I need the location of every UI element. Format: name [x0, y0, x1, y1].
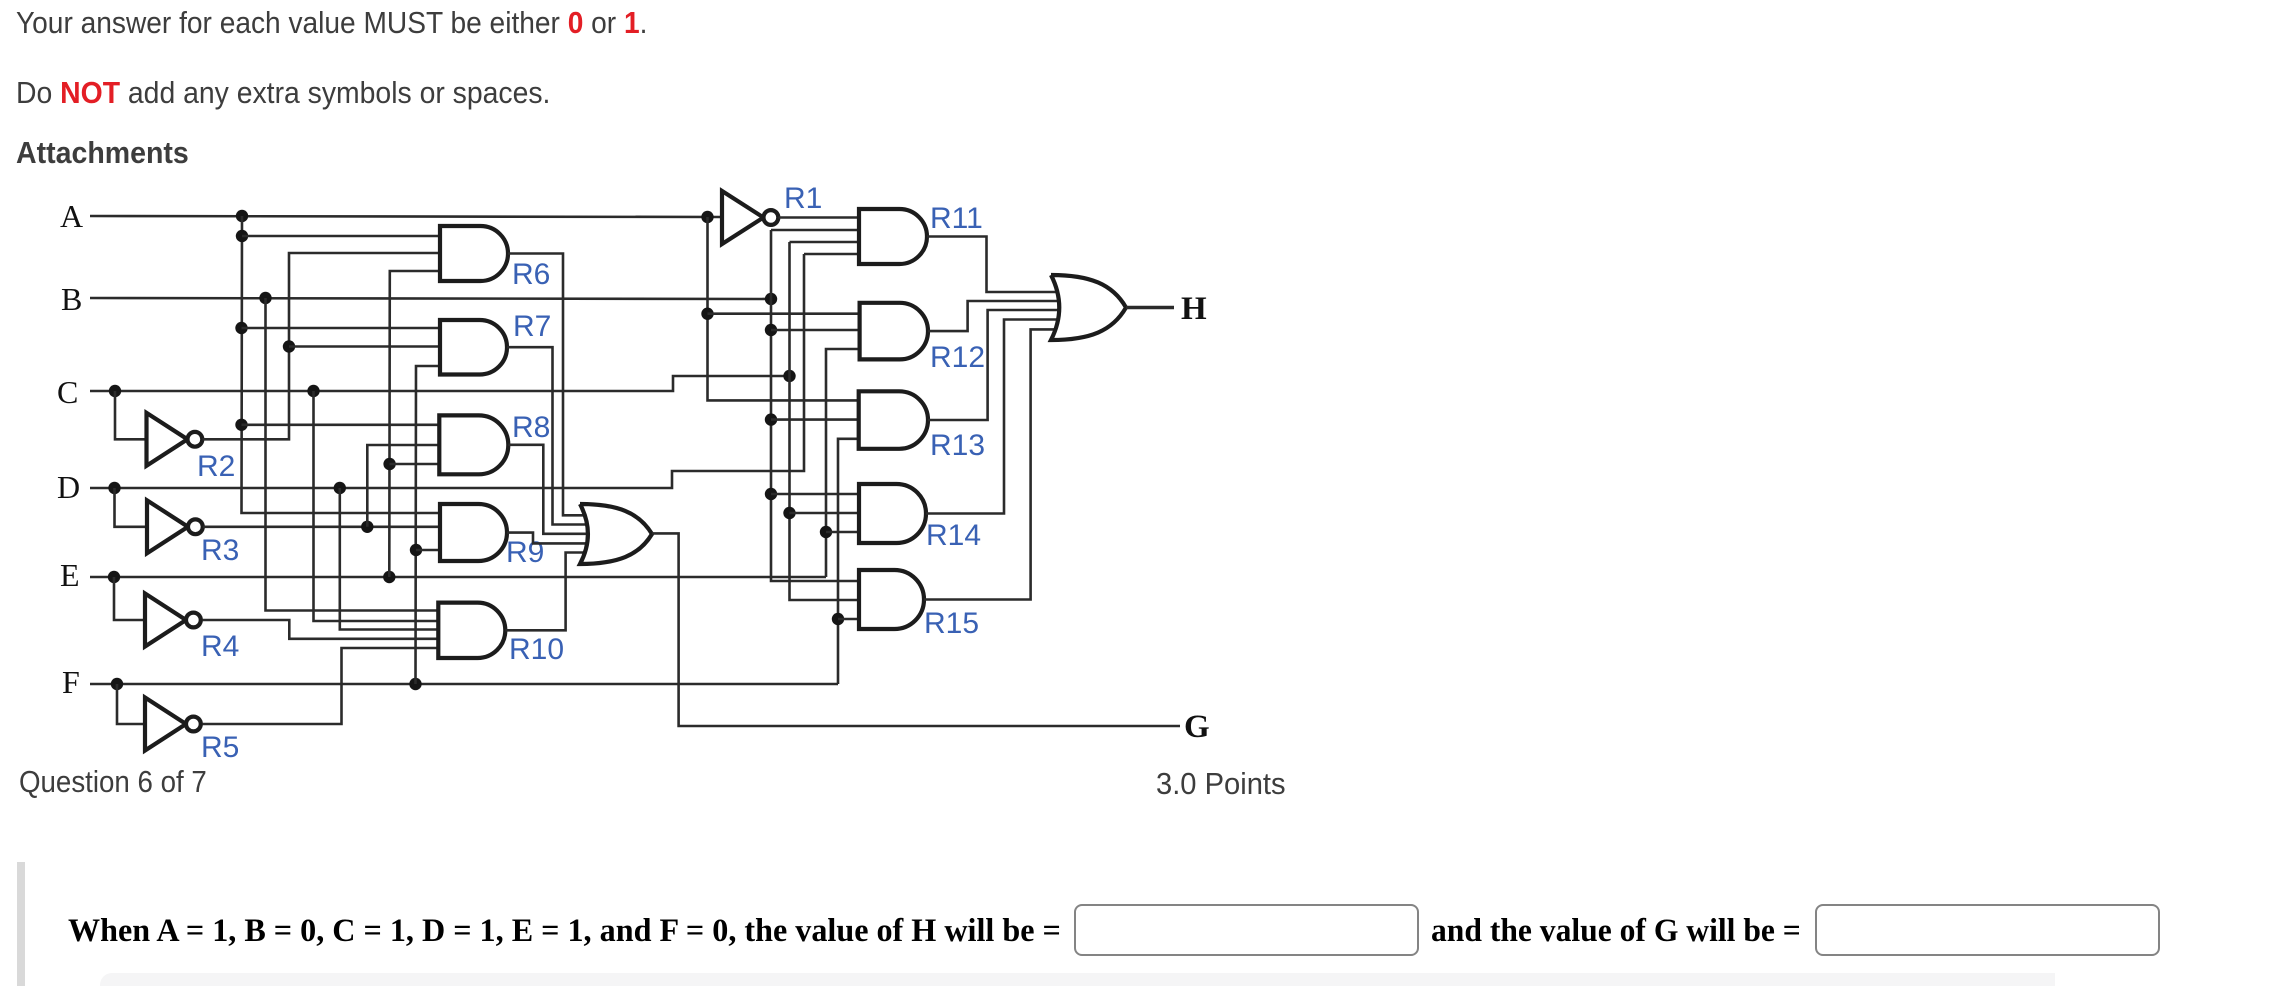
wire OR2 output to H [1126, 306, 1174, 309]
wire C drop to R10 in2 [314, 391, 439, 621]
and-gate R9 [440, 504, 507, 561]
svg-text:D: D [57, 469, 80, 505]
wire R14 output to OR2 [926, 320, 1072, 514]
svg-text:R5: R5 [201, 731, 239, 764]
wire E input line [90, 576, 826, 579]
junction A to column [236, 210, 248, 222]
quiz prompt text part 2 [1431, 913, 1801, 950]
junction R3-out riser [361, 521, 373, 533]
wire A input line [90, 216, 722, 217]
wire F to R9 in3 [416, 549, 440, 552]
junction E to R14 [820, 526, 832, 538]
bottom quiz block accent bar [17, 862, 25, 986]
junction E to R8 [383, 458, 395, 470]
wire R3 output to R9 in2 [203, 525, 440, 528]
junction F up-branch [409, 678, 421, 690]
svg-text:R9: R9 [506, 536, 544, 569]
wire C bus vertical [790, 242, 860, 600]
wire R3-out riser to R8 in2 [367, 445, 439, 527]
junction A to R7 [235, 322, 247, 334]
wire A to R8 in1 [242, 423, 440, 426]
wire R12 output to OR2 [928, 301, 1072, 331]
wire R2-out to R7 in2 [289, 345, 440, 348]
wire B bus vertical [771, 230, 859, 581]
junction C to R14 [783, 507, 795, 519]
wire R8 output to OR1 [508, 445, 606, 534]
svg-text:R7: R7 [513, 310, 551, 343]
and-gate R10 [438, 603, 505, 658]
svg-text:B: B [61, 281, 82, 317]
svg-text:R11: R11 [930, 202, 983, 235]
junction D to R10 drop [334, 482, 346, 494]
junction F to R15 [832, 613, 844, 625]
bottom footer band [100, 973, 2055, 986]
svg-text:R4: R4 [201, 630, 239, 663]
svg-text:R10: R10 [509, 633, 564, 666]
svg-text:F: F [62, 664, 80, 700]
wire B to R12 in2 [771, 329, 860, 332]
wire E to R8 in3 [390, 463, 440, 466]
junction E to R4 [108, 571, 120, 583]
wire R1 output to R11 [778, 216, 859, 219]
inverter R2 [147, 413, 188, 466]
junction B to R14 [765, 488, 777, 500]
and-gate R14 [859, 484, 926, 543]
junction B to R12 [765, 324, 777, 336]
and-gate R13 [859, 391, 928, 449]
junction C bus [783, 370, 795, 382]
and-gate R7 [440, 320, 507, 375]
junction F to R5 [111, 678, 123, 690]
top instruction line 2 [16, 75, 550, 111]
junction R2-out to R7 [283, 340, 295, 352]
wire B to R14 in1 [771, 493, 859, 496]
svg-text:R3: R3 [201, 534, 239, 567]
wire C to R14 in2 [790, 512, 860, 515]
wire D to R3 input [115, 488, 148, 527]
wire C to R2 input [115, 391, 147, 439]
junction F to R9 [410, 544, 422, 556]
wire R9 output to OR1 [507, 533, 606, 544]
wire F to R15 in3 [838, 618, 859, 621]
junction E up-branch [383, 571, 395, 583]
or-gate OR2 (H) [1051, 275, 1126, 340]
wire E riser to R12 in3 [826, 349, 860, 577]
svg-text:C: C [57, 374, 78, 410]
top instruction line 1 [16, 5, 647, 41]
junction A to R12/R13 column [701, 211, 713, 223]
wire E up-branch to R6 in3 [389, 271, 440, 577]
svg-text:R6: R6 [512, 258, 550, 291]
wire B to R11 in2 [771, 229, 859, 232]
and-gate R11 [859, 209, 927, 264]
and-gate R6 [440, 226, 508, 281]
wire net-A vertical column [242, 216, 441, 513]
wire B to R13 in2 [771, 418, 859, 421]
junction A to R6 [236, 230, 248, 242]
wire F up-branch to R7 in3 [416, 366, 441, 684]
wire R11 output to OR2 [927, 237, 1072, 293]
wire A to R12 in1 [708, 312, 860, 315]
inverter R4 [145, 594, 186, 647]
wire OR1 output to G [652, 533, 1180, 726]
wire C input line with step [90, 376, 790, 391]
junction A to R12 [701, 308, 713, 320]
svg-text:A: A [60, 198, 83, 234]
junction B to R13 [765, 413, 777, 425]
wire D input line with step [90, 254, 804, 488]
svg-text:R2: R2 [197, 450, 235, 483]
junction C to R2 [109, 385, 121, 397]
wire F riser to R13 in3 [838, 439, 859, 684]
wire A to R6 in1 [242, 235, 440, 238]
wire R4 output to R10 in4 [203, 620, 439, 639]
junction D to R3 [108, 482, 120, 494]
svg-text:R1: R1 [784, 182, 822, 215]
points footer [1156, 766, 1286, 802]
attachments heading [16, 135, 189, 171]
wire R6 output to OR1 [508, 254, 606, 516]
and-gate R15 [859, 570, 924, 629]
wire E to R14 in3 [826, 531, 859, 534]
wire E to R4 input [114, 577, 145, 620]
svg-text:E: E [60, 557, 80, 593]
svg-text:R8: R8 [512, 411, 550, 444]
wire R7 output to OR1 [507, 347, 606, 524]
answer input box H [1074, 904, 1419, 956]
wire F input line [90, 683, 838, 686]
wire D to R11 in4 [804, 253, 859, 256]
wire B input line [90, 298, 771, 299]
svg-text:R14: R14 [926, 519, 981, 552]
inverter R1 [722, 191, 764, 244]
or-gate OR1 (G) [580, 504, 652, 564]
wire R10 output to OR1 [505, 553, 606, 631]
svg-text:G: G [1184, 709, 1210, 745]
wire C to R11 in3 [790, 241, 860, 244]
inverter R5 [145, 698, 186, 751]
wire A column to R13 in1 [708, 217, 859, 400]
svg-text:R13: R13 [930, 429, 985, 462]
svg-text:R15: R15 [924, 607, 979, 640]
wire F to R5 input [117, 684, 145, 724]
and-gate R12 [860, 303, 928, 360]
junction B bus [765, 293, 777, 305]
wire B drop to R10 in1 [266, 298, 439, 611]
wire A to R7 in1 [242, 327, 441, 330]
junction C to R10 drop [307, 385, 319, 397]
wire R15 output to OR2 [924, 329, 1072, 599]
wire R5 output to R10 in5 [203, 648, 439, 724]
wire R13 output to OR2 [928, 310, 1072, 420]
junction A to R8 [235, 419, 247, 431]
answer input box G [1815, 904, 2160, 956]
and-gate R8 [439, 415, 508, 474]
wire D drop to R10 in3 [340, 488, 439, 630]
wire R2 output riser [203, 253, 441, 439]
quiz prompt text with answer boxes [68, 913, 1061, 950]
junction B to column [259, 292, 271, 304]
question footer left [19, 764, 207, 800]
inverter R3 [147, 500, 188, 553]
svg-text:R12: R12 [930, 341, 985, 374]
svg-text:H: H [1181, 291, 1207, 327]
